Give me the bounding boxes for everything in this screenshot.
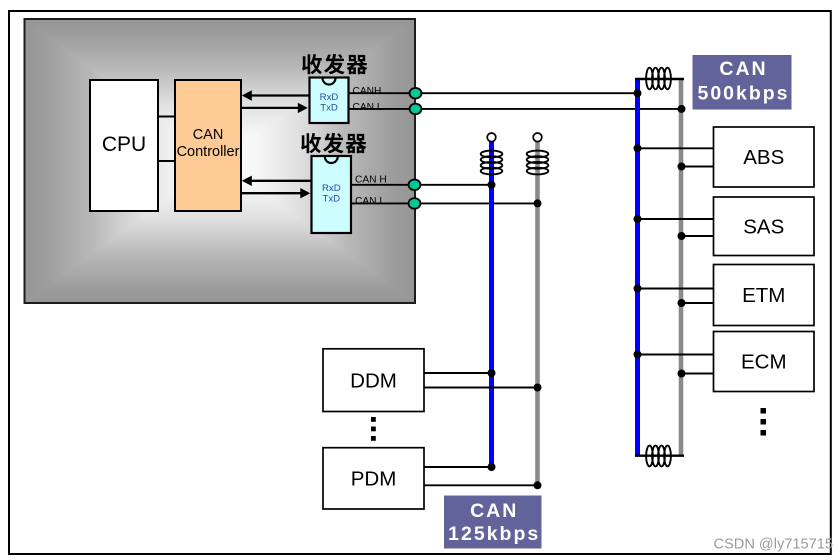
svg-text:125kbps: 125kbps xyxy=(448,523,540,545)
svg-text:DDM: DDM xyxy=(350,369,397,392)
svg-text:CANH: CANH xyxy=(353,86,382,97)
svg-text:TxD: TxD xyxy=(320,102,338,113)
svg-text:ABS: ABS xyxy=(743,146,784,169)
svg-text:CAN: CAN xyxy=(719,58,767,80)
svg-text:CAN L: CAN L xyxy=(355,196,385,207)
svg-text:CAN: CAN xyxy=(470,500,518,522)
svg-text:ETM: ETM xyxy=(742,284,785,307)
svg-text:500kbps: 500kbps xyxy=(697,83,789,105)
svg-text:CSDN @ly715715: CSDN @ly715715 xyxy=(714,537,833,553)
svg-text:CAN: CAN xyxy=(193,127,224,143)
svg-text:CAN L: CAN L xyxy=(353,102,383,113)
svg-text:ECM: ECM xyxy=(741,351,787,374)
svg-text:PDM: PDM xyxy=(351,468,397,491)
svg-text:TxD: TxD xyxy=(323,194,341,205)
svg-text:CPU: CPU xyxy=(102,133,146,156)
svg-text:CAN H: CAN H xyxy=(355,175,387,186)
svg-text:SAS: SAS xyxy=(743,215,784,238)
svg-text:Controller: Controller xyxy=(177,144,240,160)
svg-text:RxD: RxD xyxy=(322,183,341,194)
